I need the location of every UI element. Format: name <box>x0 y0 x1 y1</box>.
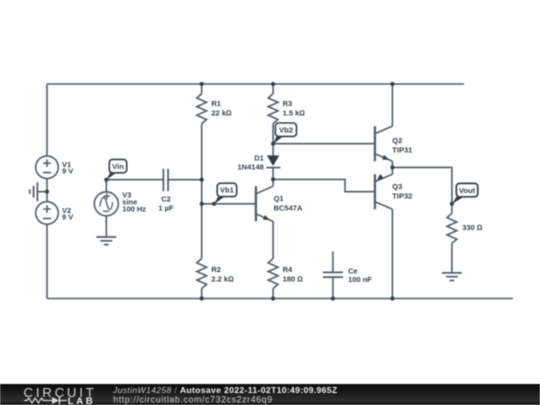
svg-text:Ce: Ce <box>348 267 358 276</box>
wire ground stub left <box>37 191 47 193</box>
wire R3 top lead <box>272 84 274 94</box>
resistor R4 body <box>268 259 278 289</box>
svg-text:100 Hz: 100 Hz <box>122 204 146 213</box>
wire 330 resistor to ground <box>451 243 453 273</box>
wire bottom rail <box>47 298 513 300</box>
capacitor C2 <box>163 169 168 192</box>
node top rail R1 <box>200 82 204 86</box>
footer logo resistor squiggle <box>24 398 46 403</box>
flag Vb1 <box>214 183 237 204</box>
transistor Q3 TIP32 <box>375 167 393 209</box>
wire D1 node to Q3 base (stepped) <box>273 179 375 191</box>
svg-text:Vin: Vin <box>112 162 124 171</box>
ground below V3 <box>96 237 116 245</box>
node top rail Q2 collector <box>390 82 394 86</box>
junction node dots <box>45 82 454 301</box>
source V3 sine <box>94 192 118 216</box>
resistor R1 body <box>197 94 207 124</box>
svg-text:http://circuitlab.com/c732cs2z: http://circuitlab.com/c732cs2zr46q9 <box>113 394 273 404</box>
svg-text:Q1: Q1 <box>274 194 284 203</box>
wire R4 bottom lead <box>272 289 274 299</box>
resistor R2 body <box>197 259 207 289</box>
wire left vertical V+ <box>46 84 48 156</box>
transistor Q1 BC547A <box>256 179 273 221</box>
wire Q3 collector to bottom rail <box>391 209 393 298</box>
svg-text:180 Ω: 180 Ω <box>283 274 304 283</box>
node bottom rail R4 <box>271 296 275 300</box>
ground below 330 ohm <box>442 273 462 281</box>
wire Ce bottom lead <box>332 277 334 298</box>
node Vb1 anchor <box>212 202 216 206</box>
wire V3 top lead <box>105 180 107 192</box>
footer logo diode symbol <box>46 400 52 402</box>
flag Vout <box>452 183 478 204</box>
wire Q1 base <box>202 203 256 205</box>
svg-text:2.2 kΩ: 2.2 kΩ <box>211 274 234 283</box>
wire R3 bottom to Vb2 node to D1 <box>272 124 274 156</box>
wire C2 to R1 column <box>168 179 202 181</box>
wire emitter node to Vout column <box>392 167 452 203</box>
svg-text:Q2: Q2 <box>392 136 402 145</box>
svg-text:Vb1: Vb1 <box>220 186 235 195</box>
svg-text:1.5 kΩ: 1.5 kΩ <box>283 109 306 118</box>
flag Vb2 <box>273 123 296 144</box>
wire R2 bottom lead <box>201 289 203 299</box>
resistor 330 ohm body <box>447 213 457 243</box>
node bottom rail Q3 collector <box>390 296 394 300</box>
diode D1 <box>266 155 280 167</box>
svg-text:1N4148: 1N4148 <box>238 163 264 172</box>
wire V2 to bottom rail <box>46 224 48 298</box>
wire R1 top lead <box>201 84 203 94</box>
svg-text:330 Ω: 330 Ω <box>462 223 483 232</box>
svg-text:22 kΩ: 22 kΩ <box>211 109 232 118</box>
svg-text:Vb2: Vb2 <box>279 126 293 135</box>
node Vb2 <box>271 142 275 146</box>
node bottom rail R2 <box>200 296 204 300</box>
wire Q1 emitter to R4 <box>272 221 274 258</box>
wire Ce top dangling lead <box>332 251 334 272</box>
svg-text:LAB: LAB <box>68 396 96 405</box>
svg-text:D1: D1 <box>254 154 264 163</box>
wire Vb2 node to Q2 base <box>273 143 375 145</box>
wire V3 bottom lead <box>105 216 107 237</box>
svg-text:R1: R1 <box>211 99 221 108</box>
wire Vin node to C2 <box>106 179 163 181</box>
wire Vout node to 330 resistor <box>451 204 453 214</box>
svg-text:1 µF: 1 µF <box>158 204 174 213</box>
wire D1 cathode to Q1 collector node <box>272 168 274 180</box>
svg-text:C2: C2 <box>161 194 171 203</box>
node Vin <box>104 178 108 182</box>
wire between V1 and V2 <box>46 178 48 201</box>
transistor Q2 TIP31 <box>375 126 393 167</box>
svg-text:R3: R3 <box>283 99 293 108</box>
svg-text:Vout: Vout <box>459 186 476 195</box>
node top rail R3 <box>271 82 275 86</box>
svg-text:BC547A: BC547A <box>274 204 303 213</box>
footer bar <box>0 384 540 405</box>
wire Q2 collector to top rail <box>391 84 393 126</box>
ground at V1/V2 midpoint (rotated left) <box>30 182 38 201</box>
node bottom rail Ce <box>331 296 335 300</box>
node Vb1 column <box>200 202 204 206</box>
node D1 Q1 collector <box>271 177 275 181</box>
wire R1 column (R1 bottom through nodes to R2 top) <box>201 124 203 259</box>
svg-text:100 nF: 100 nF <box>348 275 372 284</box>
svg-text:R4: R4 <box>283 265 293 274</box>
node ground V1 V2 <box>45 190 49 194</box>
svg-text:9 V: 9 V <box>62 167 73 176</box>
svg-text:TIP32: TIP32 <box>392 192 412 201</box>
node emitters Q2 Q3 <box>390 165 394 169</box>
wire top rail <box>47 83 464 85</box>
flag Vin <box>106 159 126 180</box>
node C2 R1 <box>200 178 204 182</box>
node Vout <box>450 202 454 206</box>
voltage source V1 <box>36 156 59 179</box>
capacitor Ce <box>323 272 343 277</box>
voltage source V2 <box>36 202 59 225</box>
resistor R3 body <box>268 94 278 124</box>
svg-text:9 V: 9 V <box>62 213 73 222</box>
svg-text:Q3: Q3 <box>392 182 402 191</box>
svg-text:TIP31: TIP31 <box>392 145 412 154</box>
svg-text:R2: R2 <box>211 265 221 274</box>
